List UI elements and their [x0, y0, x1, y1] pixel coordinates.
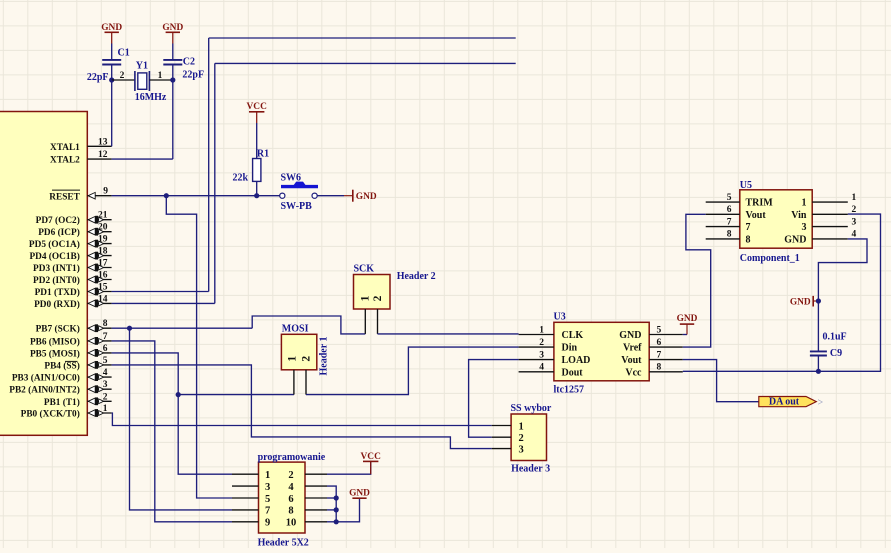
svg-text:SW-PB: SW-PB: [281, 201, 313, 212]
svg-text:3: 3: [265, 482, 270, 493]
svg-text:8: 8: [727, 230, 732, 240]
svg-text:PD2 (INT0): PD2 (INT0): [33, 275, 80, 286]
wire U3 Vcc net: [683, 214, 881, 371]
svg-text:Header 2: Header 2: [397, 271, 436, 282]
pin U3 CLK (1): [519, 325, 584, 341]
svg-text:PB0 (XCK/T0): PB0 (XCK/T0): [21, 409, 80, 420]
svg-text:1: 1: [519, 421, 524, 432]
pin RESET (9): [49, 187, 111, 203]
wire XTAL1 vertical: [111, 80, 113, 146]
wire PB7 SCK net: [112, 316, 366, 334]
svg-text:4: 4: [103, 368, 108, 378]
wire MOSI header pin2 to U3 Din: [306, 347, 519, 395]
wire C9 to Vcc net: [817, 356, 819, 372]
pin MOSI header 1: [293, 370, 295, 395]
wire PB0 to SS header pin1: [112, 413, 492, 426]
svg-text:Dout: Dout: [562, 367, 584, 378]
pin PB4 (SS) (5): [44, 356, 111, 372]
wire SCK header pin2 to U3 CLK: [378, 333, 519, 335]
wire RESET to ISP pin5: [166, 196, 232, 498]
pin PB1 (T1) (2): [44, 392, 112, 408]
svg-text:2: 2: [372, 295, 384, 301]
pin SS header 1: [492, 421, 524, 432]
svg-text:3: 3: [802, 222, 807, 233]
pin PB0 (XCK/T0) (1): [21, 404, 112, 420]
pin PD2 (INT0) (16): [33, 271, 112, 287]
svg-text:Vout: Vout: [746, 210, 767, 221]
wire PB5 MOSI net: [112, 353, 232, 474]
wire U5 GND pin4 to C9 node: [818, 239, 867, 301]
svg-text:7: 7: [103, 332, 108, 342]
svg-text:R1: R1: [257, 149, 269, 160]
svg-text:8: 8: [288, 506, 293, 517]
svg-text:7: 7: [265, 506, 270, 517]
pin prog header 6: [288, 494, 327, 505]
svg-text:9: 9: [265, 518, 270, 529]
wire SCK junction to ISP pin7: [130, 328, 233, 510]
svg-text:2: 2: [519, 433, 524, 444]
pin U3 GND (5): [619, 325, 683, 341]
svg-text:LOAD: LOAD: [562, 355, 591, 366]
svg-text:XTAL2: XTAL2: [50, 156, 80, 166]
svg-text:9: 9: [103, 187, 108, 197]
node C9 junction low: [816, 369, 821, 374]
svg-text:17: 17: [98, 259, 108, 269]
svg-text:10: 10: [286, 518, 297, 529]
pin U3 Vout (7): [621, 350, 683, 366]
pin PD5 (OC1A) (19): [29, 235, 112, 251]
pin PB2 (AIN0/INT2) (3): [9, 380, 111, 396]
capacitor C1: [87, 48, 130, 84]
svg-text:programowanie: programowanie: [258, 452, 326, 463]
svg-text:6: 6: [288, 494, 293, 505]
svg-text:22pF: 22pF: [87, 72, 109, 83]
svg-text:8: 8: [746, 235, 751, 246]
svg-text:U3: U3: [554, 311, 566, 322]
header MOSI Header 1: [281, 323, 329, 375]
svg-text:3: 3: [103, 380, 108, 390]
pin SCK header 2: [377, 309, 379, 334]
svg-text:PD6 (ICP): PD6 (ICP): [38, 227, 80, 238]
svg-text:PD7 (OC2): PD7 (OC2): [36, 215, 80, 226]
pin U3 Dout (4): [519, 363, 584, 379]
pin SS header 3: [492, 444, 524, 455]
svg-text:Vref: Vref: [623, 343, 642, 354]
pin U5 7 (7): [706, 217, 751, 233]
wire VCC to R1: [256, 123, 258, 159]
svg-text:1: 1: [158, 71, 163, 81]
pin prog header 9: [232, 518, 270, 529]
svg-text:1: 1: [802, 198, 807, 209]
node prog gnd junction 6: [334, 495, 339, 500]
pin PD3 (INT1) (17): [33, 259, 112, 275]
svg-text:2: 2: [288, 470, 293, 481]
pin U5 3 (3): [802, 217, 857, 233]
svg-text:PD0 (RXD): PD0 (RXD): [34, 299, 80, 310]
power port VCC (R1): [247, 102, 268, 123]
pin PD6 (ICP) (20): [38, 223, 111, 239]
node XTAL1 junction: [109, 77, 114, 82]
wire U3 Vref to U5 Vout: [683, 214, 711, 347]
wire U3 Vout to DA out: [683, 360, 759, 402]
svg-text:VCC: VCC: [247, 102, 268, 112]
wire crystal pin 1 to node: [149, 79, 172, 81]
svg-text:2: 2: [539, 338, 544, 348]
pin U5 TRIM (5): [706, 193, 774, 209]
wire PD1 TXD net: [112, 38, 516, 292]
svg-text:RESET: RESET: [49, 192, 80, 202]
svg-text:TRIM: TRIM: [746, 198, 774, 209]
wire prog pin2 to VCC: [327, 461, 371, 474]
svg-text:Header 3: Header 3: [511, 464, 550, 475]
svg-text:U5: U5: [740, 180, 752, 191]
svg-text:C2: C2: [183, 56, 195, 67]
node prog gnd junction 10: [334, 519, 339, 524]
svg-text:PB4 (SS): PB4 (SS): [44, 360, 79, 371]
power port GND (above C1): [101, 23, 122, 44]
pin prog header 5: [232, 494, 270, 505]
svg-text:4: 4: [288, 482, 294, 493]
power port GND (U3): [677, 314, 698, 334]
pin PD1 (TXD) (15): [35, 283, 112, 299]
wire GND node to C9: [817, 301, 819, 351]
pin U5 GND (4): [784, 230, 856, 246]
svg-text:DA out: DA out: [769, 397, 800, 408]
svg-text:4: 4: [539, 363, 544, 373]
wire R1 to RESET: [256, 181, 258, 195]
svg-text:PD3 (INT1): PD3 (INT1): [33, 263, 80, 274]
wire node down to XTAL2: [112, 80, 173, 159]
crystal Y1: [135, 60, 167, 103]
svg-text:PB6 (MISO): PB6 (MISO): [30, 336, 80, 347]
svg-text:PB5 (MOSI): PB5 (MOSI): [30, 348, 80, 359]
header programowanie Header 5X2: [258, 452, 326, 548]
svg-text:1: 1: [852, 193, 857, 203]
header SS wybor Header 3: [511, 403, 552, 475]
pin PB5 (MOSI) (6): [30, 344, 112, 360]
pin PB7 (SCK) (8): [36, 319, 112, 335]
pin U3 Vcc (8): [625, 363, 682, 379]
node R1 junction: [254, 193, 259, 198]
svg-text:20: 20: [98, 223, 108, 233]
svg-text:C9: C9: [830, 348, 842, 359]
svg-text:SCK: SCK: [354, 264, 375, 275]
svg-text:Y1: Y1: [136, 60, 148, 71]
wire PB6 MISO net: [112, 341, 232, 522]
pin prog header 10: [286, 518, 327, 529]
svg-text:7: 7: [727, 217, 732, 227]
node PB7 junction: [127, 326, 132, 331]
svg-text:15: 15: [98, 283, 108, 293]
svg-text:1: 1: [360, 295, 372, 301]
pin prog header 1: [232, 470, 270, 481]
pin MOSI header 2: [305, 370, 307, 395]
pin prog header 4: [288, 482, 327, 493]
pin XTAL2 (12): [50, 150, 112, 166]
wire C1 to XTAL1 node: [111, 65, 113, 81]
pin U5 8 (8): [706, 230, 751, 246]
wire prog pin4 ground bus: [327, 486, 360, 522]
wire U3 LOAD to SS header pin2: [469, 360, 519, 438]
svg-text:ltc1257: ltc1257: [554, 385, 585, 396]
svg-text:PB7 (SCK): PB7 (SCK): [36, 324, 80, 335]
power port GND (right of SW6): [344, 190, 377, 202]
svg-text:GND: GND: [619, 330, 641, 341]
header SCK Header 2: [354, 264, 436, 310]
node XTAL2 junction: [170, 77, 175, 82]
power port GND (above C2): [162, 23, 183, 44]
svg-text:CLK: CLK: [562, 330, 584, 341]
svg-text:0.1uF: 0.1uF: [823, 331, 847, 342]
pin PB6 (MISO) (7): [30, 332, 112, 348]
svg-text:8: 8: [657, 363, 662, 373]
capacitor C2: [163, 56, 204, 80]
pin PD4 (OC1B) (18): [29, 247, 111, 263]
wire MOSI junction to header: [178, 394, 294, 396]
svg-text:5: 5: [103, 356, 108, 366]
svg-text:PB3 (AIN1/OC0): PB3 (AIN1/OC0): [12, 373, 80, 384]
resistor R1: [233, 149, 270, 184]
svg-text:6: 6: [727, 205, 732, 215]
IC U? microcontroller body: [0, 112, 87, 436]
svg-text:5: 5: [727, 193, 732, 203]
svg-text:2: 2: [103, 392, 108, 402]
pin U5 1 (1): [802, 193, 857, 209]
svg-text:Header 1: Header 1: [318, 337, 329, 376]
wire node up to C2: [172, 65, 174, 81]
pin PB3 (AIN1/OC0) (4): [12, 368, 112, 384]
svg-text:22k: 22k: [233, 173, 249, 184]
pin XTAL1 (13): [50, 137, 112, 153]
svg-text:XTAL1: XTAL1: [50, 143, 80, 153]
svg-text:C1: C1: [118, 48, 130, 59]
port DA out: [759, 397, 824, 409]
svg-text:>: >: [818, 398, 824, 409]
svg-text:2: 2: [852, 205, 857, 215]
svg-text:MOSI: MOSI: [282, 323, 309, 334]
svg-text:PB2 (AIN0/INT2): PB2 (AIN0/INT2): [9, 385, 80, 396]
pin SCK header 1: [364, 309, 366, 334]
svg-text:19: 19: [98, 235, 108, 245]
svg-text:1: 1: [286, 356, 298, 362]
svg-text:3: 3: [852, 217, 857, 227]
wire RESET net: [112, 195, 280, 197]
svg-text:Vcc: Vcc: [625, 367, 642, 378]
svg-text:18: 18: [98, 247, 108, 257]
svg-text:21: 21: [98, 211, 108, 221]
capacitor C9 0.1uF: [810, 331, 847, 359]
svg-text:5: 5: [265, 494, 270, 505]
svg-text:2: 2: [300, 356, 312, 362]
svg-text:VCC: VCC: [361, 452, 382, 462]
wire GND to C1: [111, 44, 113, 60]
svg-text:2: 2: [120, 71, 125, 81]
svg-text:1: 1: [103, 404, 108, 414]
svg-text:1: 1: [539, 325, 544, 335]
switch SW6 SW-PB: [280, 173, 318, 213]
IC U3 ltc1257: [554, 311, 650, 395]
node prog gnd junction 8: [334, 507, 339, 512]
svg-text:Component_1: Component_1: [740, 253, 800, 264]
svg-text:GND: GND: [784, 235, 806, 246]
svg-text:16: 16: [98, 271, 108, 281]
power port GND (C9): [790, 296, 819, 307]
svg-text:PD1 (TXD): PD1 (TXD): [35, 287, 80, 298]
svg-text:8: 8: [103, 319, 108, 329]
pin U3 Din (2): [519, 338, 578, 354]
svg-text:SW6: SW6: [281, 173, 302, 184]
svg-text:Vin: Vin: [791, 210, 807, 221]
svg-text:GND: GND: [349, 488, 370, 498]
power port GND (prog): [349, 488, 370, 498]
wire C2 to GND: [172, 44, 174, 60]
pin prog header 8: [288, 506, 327, 517]
svg-text:1: 1: [265, 470, 270, 481]
svg-text:6: 6: [103, 344, 108, 354]
svg-text:PD4 (OC1B): PD4 (OC1B): [29, 251, 79, 262]
svg-text:PB1 (T1): PB1 (T1): [44, 397, 80, 408]
pin U3 LOAD (3): [519, 350, 591, 366]
wire node to crystal pin 2: [112, 79, 135, 81]
wire PD0 RXD net: [112, 63, 516, 303]
IC U5 Component_1: [740, 180, 812, 264]
pin PD7 (OC2) (21): [36, 211, 112, 227]
node RESET branch junction: [164, 193, 169, 198]
node MOSI junction: [176, 392, 181, 397]
power port VCC (prog): [361, 452, 382, 474]
wire PB4 SS net: [112, 365, 492, 449]
pin prog header 3: [232, 482, 270, 493]
svg-text:Vout: Vout: [621, 355, 642, 366]
pin U5 Vout (6): [706, 205, 767, 221]
svg-text:GND: GND: [677, 314, 698, 324]
svg-text:14: 14: [98, 294, 108, 304]
wire U3 GND to port: [683, 334, 687, 336]
svg-text:13: 13: [98, 137, 108, 147]
pin U3 Vref (6): [623, 338, 683, 354]
svg-text:GND: GND: [790, 297, 811, 307]
svg-text:Din: Din: [562, 343, 578, 354]
pin prog header 2: [288, 470, 327, 481]
svg-text:5: 5: [657, 325, 662, 335]
svg-text:PD5 (OC1A): PD5 (OC1A): [29, 239, 80, 250]
svg-text:4: 4: [852, 230, 857, 240]
node C9 junction top: [816, 298, 821, 303]
svg-text:22pF: 22pF: [182, 70, 204, 81]
svg-text:12: 12: [98, 150, 108, 160]
svg-text:Header 5X2: Header 5X2: [258, 537, 309, 548]
pin U5 Vin (2): [791, 205, 856, 221]
pin prog header 7: [232, 506, 270, 517]
svg-text:7: 7: [657, 350, 662, 360]
svg-text:6: 6: [657, 338, 662, 348]
pin PD0 (RXD) (14): [34, 294, 112, 310]
svg-text:16MHz: 16MHz: [135, 92, 167, 103]
svg-text:GND: GND: [356, 192, 377, 202]
svg-text:3: 3: [539, 350, 544, 360]
svg-text:SS wybor: SS wybor: [511, 403, 552, 414]
svg-text:3: 3: [519, 444, 524, 455]
pin SS header 2: [492, 433, 524, 444]
wire SW6 to GND: [317, 195, 344, 197]
svg-text:7: 7: [746, 222, 751, 233]
